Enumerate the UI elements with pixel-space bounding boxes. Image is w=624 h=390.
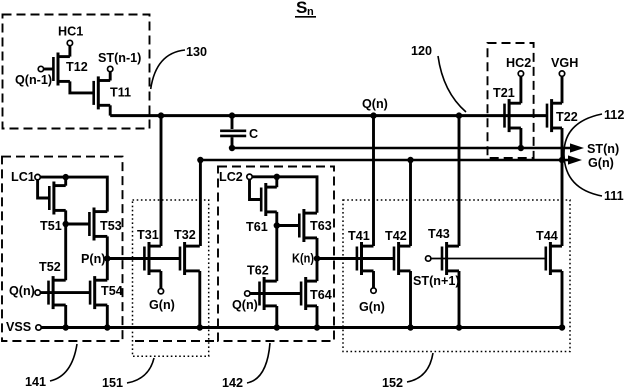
wire LC1 to T53 drain bbox=[40, 177, 107, 212]
transistor T22 bbox=[547, 99, 562, 132]
wire T42 source to VSS bbox=[409, 271, 412, 328]
terminal HC2 bbox=[518, 71, 523, 76]
svg-text:LC2: LC2 bbox=[219, 170, 243, 184]
node VSS-T54 bbox=[104, 324, 110, 330]
svg-text:G(n): G(n) bbox=[359, 300, 385, 314]
wire P(n) to T31 T32 gates bbox=[107, 257, 180, 260]
wire to T63 gate bbox=[277, 224, 300, 227]
svg-text:T53: T53 bbox=[100, 219, 122, 233]
node VSS-T44 bbox=[559, 324, 565, 330]
svg-text:T61: T61 bbox=[246, 220, 268, 234]
svg-text:P(n): P(n) bbox=[81, 252, 105, 266]
terminal Q(n) 142 bbox=[245, 291, 250, 296]
node P(n) bbox=[104, 255, 110, 261]
terminal LC1 bbox=[35, 174, 40, 179]
node VSS-T43 bbox=[456, 324, 462, 330]
dashed box 141 bbox=[2, 157, 123, 341]
wire ST(n-1) to T11 drain bbox=[109, 72, 112, 81]
transistor T12 bbox=[53, 53, 70, 86]
terminal Q(n) 141 bbox=[35, 290, 40, 295]
svg-text:111: 111 bbox=[604, 189, 624, 203]
dashed box 120 bbox=[488, 43, 534, 158]
wire T54 drain to P(n) bbox=[106, 259, 109, 281]
terminal Q(n-1) bbox=[38, 66, 43, 71]
svg-text:T63: T63 bbox=[310, 219, 332, 233]
svg-text:T54: T54 bbox=[101, 284, 123, 298]
svg-text:K(n): K(n) bbox=[292, 252, 314, 266]
transistor T64 bbox=[301, 277, 317, 310]
wire LC2 to T63 drain bbox=[252, 177, 317, 213]
wire rail to T43 drain bbox=[458, 116, 461, 246]
wire T44 source to VSS bbox=[561, 271, 564, 328]
node VSS-T52 bbox=[62, 324, 68, 330]
svg-text:S: S bbox=[296, 0, 307, 17]
svg-text:LC1: LC1 bbox=[11, 170, 35, 184]
svg-text:T52: T52 bbox=[39, 260, 61, 274]
svg-text:T21: T21 bbox=[493, 86, 515, 100]
capacitor C bbox=[220, 131, 246, 136]
transistor T63 bbox=[299, 209, 317, 242]
leader line 130 bbox=[151, 50, 185, 89]
wire rail to T41 drain bbox=[372, 116, 375, 246]
wire LC2 to T61 gate bbox=[250, 180, 262, 200]
wire G line to T32 drain bbox=[199, 160, 202, 246]
wire capacitor to ST(n) line bbox=[231, 137, 234, 148]
terminal G(n) 152 bbox=[371, 288, 376, 293]
node VSS-T32 bbox=[197, 324, 203, 330]
svg-text:T11: T11 bbox=[110, 86, 131, 100]
transistor T44 bbox=[546, 242, 562, 275]
svg-text:T31: T31 bbox=[137, 228, 159, 242]
transistor T41 bbox=[357, 242, 374, 275]
svg-text:T64: T64 bbox=[310, 288, 332, 302]
svg-text:151: 151 bbox=[102, 376, 123, 390]
svg-text:ST(n): ST(n) bbox=[587, 142, 619, 156]
dashed box 142 bbox=[135, 167, 334, 342]
svg-text:112: 112 bbox=[604, 108, 624, 122]
wire T22 source down to T44 drain bbox=[561, 128, 564, 246]
node junction rail-capacitor bbox=[229, 112, 235, 118]
node VSS-T42 bbox=[407, 324, 413, 330]
terminal HC1 bbox=[67, 40, 72, 45]
node LC1-T51 junction bbox=[62, 174, 68, 180]
wire VGH to T22 drain bbox=[561, 76, 564, 103]
transistor T54 bbox=[90, 276, 107, 309]
svg-text:T42: T42 bbox=[385, 229, 407, 243]
svg-text:T62: T62 bbox=[247, 264, 269, 278]
svg-text:VGH: VGH bbox=[551, 56, 578, 70]
wire K(n) to T41 T42 gates bbox=[317, 257, 394, 260]
svg-text:HC1: HC1 bbox=[58, 25, 83, 39]
terminal VSS bbox=[36, 325, 41, 330]
terminal ST(n-1) bbox=[108, 66, 113, 71]
terminal LC2 bbox=[247, 174, 252, 179]
dotted box 151 bbox=[133, 200, 209, 356]
node junction rail-T43 bbox=[456, 112, 462, 118]
wire to T53 gate bbox=[66, 223, 90, 226]
wire ST(n+1) to T43 T44 gates bbox=[431, 258, 546, 260]
wire VSS rail bbox=[41, 326, 565, 329]
leader line 120 bbox=[438, 56, 466, 112]
wire T62 source to VSS bbox=[275, 306, 278, 328]
wire T31 source to G(n) terminal bbox=[159, 271, 162, 289]
svg-text:G(n): G(n) bbox=[149, 298, 175, 312]
node VSS-T64 bbox=[314, 324, 320, 330]
svg-text:ST(n-1): ST(n-1) bbox=[98, 51, 141, 65]
terminal VGH bbox=[559, 71, 564, 76]
node junction rail-T31 bbox=[158, 112, 164, 118]
wire T12 source to T11 gate bbox=[70, 81, 94, 93]
wire HC2 to T21 drain bbox=[519, 76, 522, 103]
wire T11 source to Q(n) rail bbox=[109, 105, 112, 115]
wire ST(n) line bbox=[232, 147, 571, 150]
leader line 142 bbox=[247, 343, 270, 383]
transistor T53 bbox=[89, 208, 107, 241]
wire T21 source to ST line bbox=[519, 128, 522, 148]
wire T63 source to K(n) bbox=[316, 238, 319, 259]
title Sn bbox=[295, 0, 316, 18]
transistor T61 bbox=[261, 183, 277, 216]
wire G line to T42 drain bbox=[409, 160, 412, 246]
svg-text:Q(n): Q(n) bbox=[362, 97, 388, 111]
svg-text:T51: T51 bbox=[40, 219, 62, 233]
svg-text:T43: T43 bbox=[428, 227, 450, 241]
svg-text:T44: T44 bbox=[536, 229, 558, 243]
svg-text:C: C bbox=[249, 127, 258, 141]
wire T51 source down to T52 drain bbox=[64, 210, 67, 280]
wire Q(n) to T52 T54 gates bbox=[40, 291, 90, 294]
arrowhead ST(n) bbox=[570, 143, 584, 152]
node T63 gate junction bbox=[274, 222, 280, 228]
svg-text:142: 142 bbox=[222, 376, 243, 390]
node T21-ST junction bbox=[518, 145, 524, 151]
node VSS-T62 bbox=[274, 324, 280, 330]
transistor T43 bbox=[442, 242, 459, 275]
wire HC1 to T12 drain bbox=[68, 46, 71, 57]
svg-text:Q(n): Q(n) bbox=[232, 298, 258, 312]
wire LC1 to T51 gate bbox=[38, 180, 50, 198]
transistor T21 bbox=[505, 99, 521, 132]
transistor T52 bbox=[49, 276, 66, 309]
leader brace 112-111 bbox=[564, 114, 602, 196]
svg-text:HC2: HC2 bbox=[506, 56, 531, 70]
transistor T51 bbox=[49, 182, 65, 215]
wire T41 source to G(n) terminal bbox=[372, 271, 375, 288]
node capacitor-ST junction bbox=[229, 145, 235, 151]
svg-text:T22: T22 bbox=[556, 110, 578, 124]
wire Q(n) to T62 T64 gates bbox=[250, 292, 301, 295]
wire Q(n-1) to T12 gate bbox=[44, 68, 54, 71]
svg-text:Q(n-1): Q(n-1) bbox=[15, 73, 52, 87]
wire Q(n) rail bbox=[110, 114, 547, 117]
svg-text:G(n): G(n) bbox=[588, 156, 614, 170]
node junction rail-T41 bbox=[370, 112, 376, 118]
wire rail to T31 drain bbox=[160, 116, 163, 246]
node G-line start junction bbox=[197, 157, 203, 163]
svg-text:120: 120 bbox=[411, 44, 432, 58]
wire T51 drain up bbox=[64, 177, 67, 186]
leader line 141 bbox=[50, 344, 77, 381]
wire T53 source to P(n) bbox=[106, 236, 109, 258]
svg-text:T12: T12 bbox=[66, 60, 88, 74]
dashed box 130 bbox=[3, 15, 150, 129]
wire T32 source to VSS bbox=[198, 271, 201, 328]
node K(n) bbox=[314, 255, 320, 261]
svg-text:T41: T41 bbox=[348, 229, 370, 243]
node T42-G junction bbox=[407, 157, 413, 163]
svg-text:T32: T32 bbox=[174, 228, 196, 242]
transistor T31 bbox=[144, 242, 161, 275]
transistor T32 bbox=[180, 242, 200, 275]
terminal G(n) 151 bbox=[158, 289, 163, 294]
terminal ST(n+1) bbox=[426, 256, 431, 261]
transistor T11 bbox=[94, 76, 111, 109]
leader line 152 bbox=[407, 353, 433, 382]
wire T61 drain up bbox=[275, 177, 278, 187]
transistor T42 bbox=[394, 242, 411, 275]
wire T54 source to VSS bbox=[106, 305, 109, 328]
wire T64 drain to K(n) bbox=[316, 259, 319, 282]
leader line 151 bbox=[127, 358, 154, 383]
svg-text:VSS: VSS bbox=[6, 320, 31, 334]
node LC2-T61 junction bbox=[274, 174, 280, 180]
transistor T62 bbox=[260, 277, 277, 310]
node T22-G junction bbox=[559, 157, 565, 163]
wire T43 source to VSS bbox=[458, 271, 461, 328]
wire T61 source down to T62 drain bbox=[275, 212, 278, 281]
svg-text:152: 152 bbox=[382, 376, 403, 390]
wire rail to capacitor C bbox=[231, 116, 234, 129]
svg-text:ST(n+1): ST(n+1) bbox=[413, 274, 460, 288]
svg-text:141: 141 bbox=[25, 375, 46, 389]
svg-text:Q(n): Q(n) bbox=[9, 284, 35, 298]
dotted box 152 bbox=[343, 200, 570, 352]
node T53 gate junction bbox=[62, 221, 68, 227]
wire T64 source to VSS bbox=[316, 306, 319, 328]
wire T52 source to VSS bbox=[64, 305, 67, 328]
arrowhead G(n) bbox=[568, 155, 582, 164]
wire G(n) line bbox=[200, 159, 569, 162]
svg-text:130: 130 bbox=[186, 45, 207, 59]
